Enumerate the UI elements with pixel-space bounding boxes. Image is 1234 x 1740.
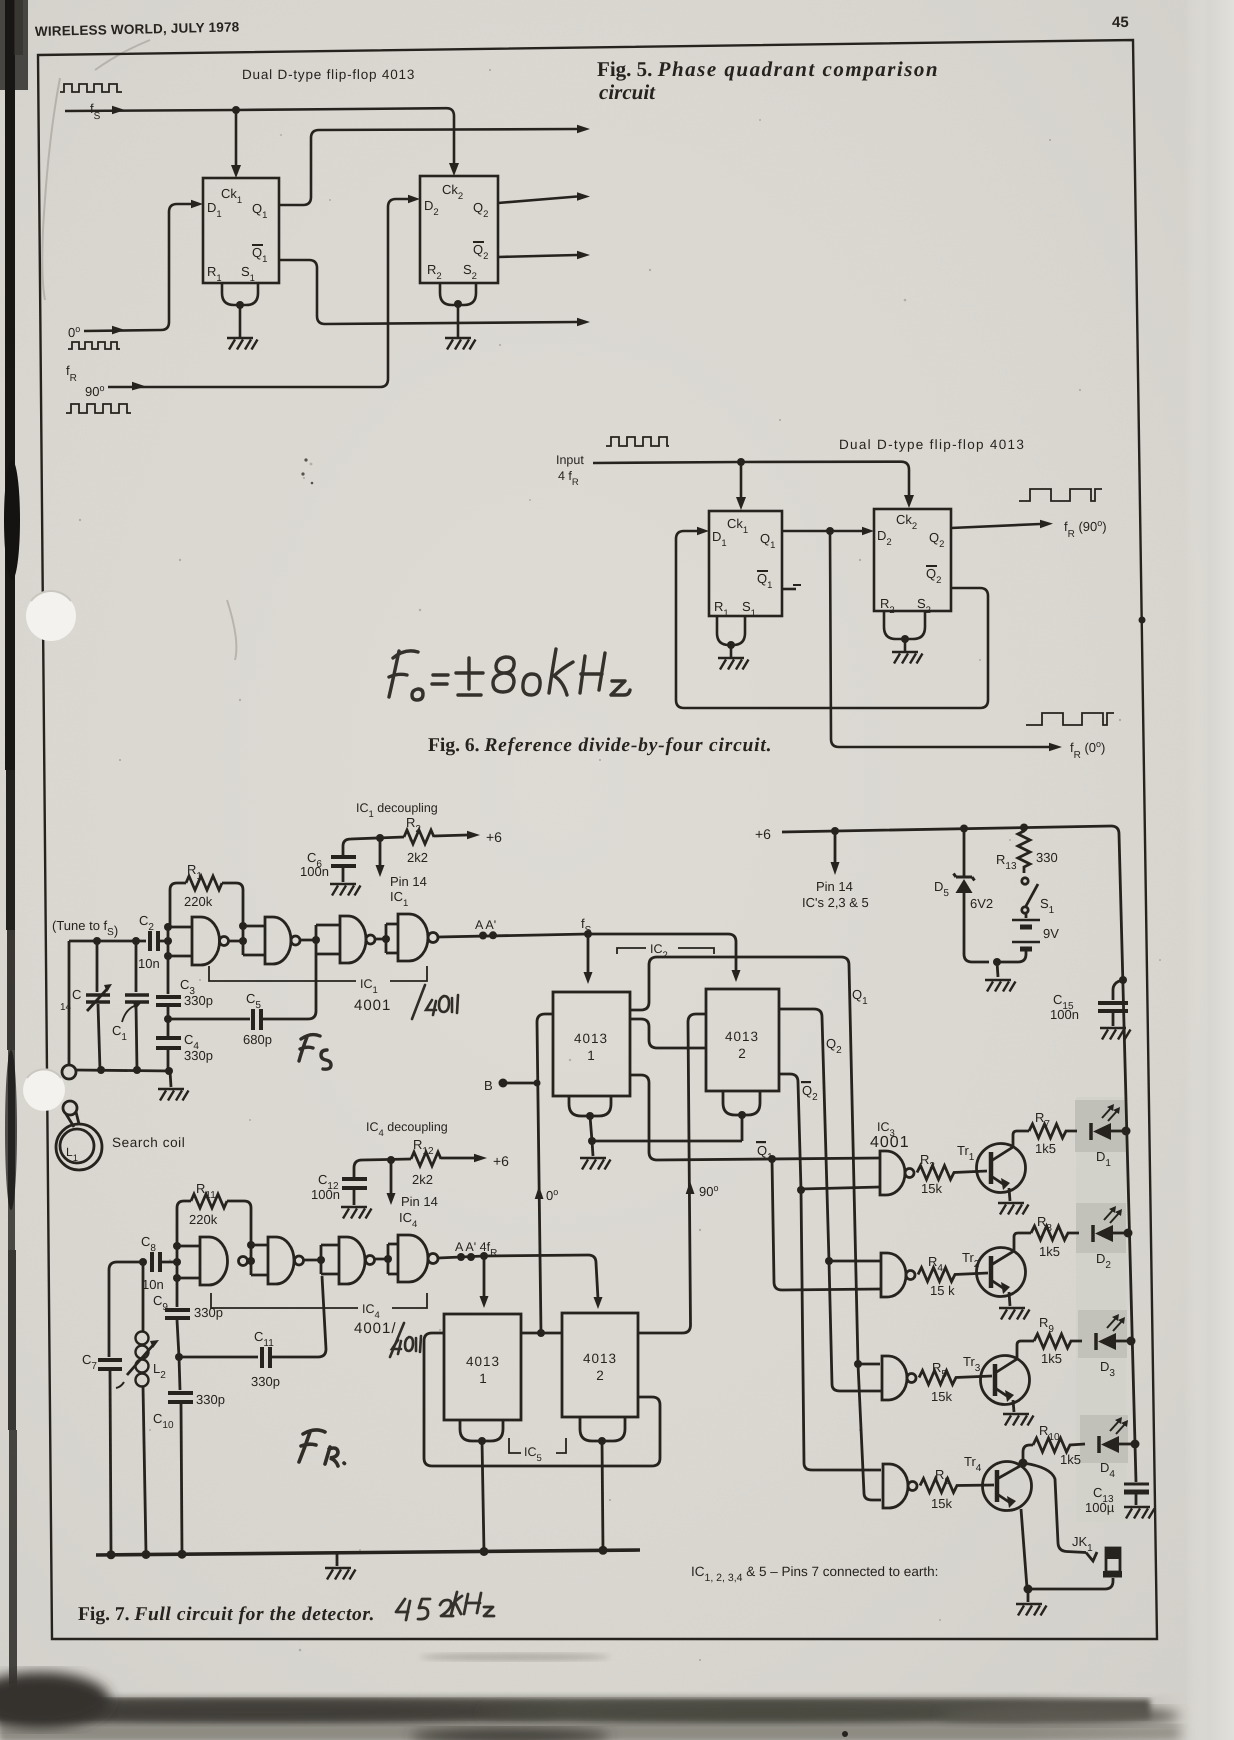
LED shading band [1076, 1097, 1126, 1522]
switch S1 [1022, 878, 1055, 916]
capacitor C5 [170, 954, 316, 1047]
svg-text:+6: +6 [486, 829, 502, 845]
capacitor C11 [179, 1276, 326, 1389]
flip-flop FF2 (Fig6) [874, 509, 951, 611]
wire input 4fR line [593, 462, 909, 497]
handwritten Fs [299, 1035, 331, 1070]
svg-text:220k: 220k [184, 894, 213, 909]
ground FF2 (Fig5) [445, 338, 476, 350]
capacitor C6 100n [331, 855, 356, 859]
wire C12 to R12 [354, 1159, 411, 1177]
capacitor C13 100u [1085, 1444, 1155, 1519]
handwritten annotation Fo = +/- 80kHz [389, 649, 630, 700]
jack JK1 contact blade [1086, 1552, 1097, 1561]
IC4 bracket and label [211, 1293, 427, 1337]
wire Q2 output arrow [498, 197, 577, 204]
wire pin14 arrow [379, 838, 382, 866]
node fS junction [584, 930, 592, 938]
capacitor C3 [156, 956, 213, 1008]
node C9/C11 junction [175, 1353, 183, 1361]
wire fS input line [65, 108, 454, 171]
resistor R1 220k feedback [170, 862, 243, 927]
wire RS ground link to FF2 [592, 1140, 742, 1143]
NOR gate IC3a [880, 1151, 905, 1195]
wire gate out node IC4c-d [375, 1244, 399, 1274]
node FF1 RS junction fig6 [727, 641, 735, 649]
node battery/zener ground junction [993, 958, 1001, 966]
svg-text:Dual D-type flip-flop 4013: Dual D-type flip-flop 4013 [839, 437, 1025, 452]
wire R2 to +6 [434, 835, 467, 836]
wire Q1 to gate C top input [858, 1363, 880, 1366]
LED D2 [1093, 1206, 1128, 1271]
resistor R11 220k feedback [177, 1181, 251, 1246]
node R2/C6/pin14 junction [376, 834, 384, 842]
svg-text:+6: +6 [755, 826, 771, 842]
wire C6 to R2 [343, 837, 404, 855]
fS input square wave [60, 84, 122, 92]
wire Q2bar loop to D1 [676, 531, 988, 708]
handwritten FR. [299, 1430, 345, 1466]
flip-flop FF1 (Fig6) [709, 511, 782, 616]
wire Q1bar down to gate B bottom input [772, 1159, 881, 1290]
svg-text:1: 1 [479, 1371, 487, 1386]
resistor R3 15k [917, 1166, 987, 1180]
svg-text:2: 2 [596, 1368, 604, 1383]
wire C8 to gate node [160, 1246, 200, 1278]
resistor R10 1k5 [1033, 1438, 1085, 1452]
wire fR 0deg output [830, 531, 1049, 747]
wire IC5 FF2 RS loop [580, 1417, 625, 1441]
wire 0-degree input to D1 [84, 204, 191, 331]
wire FF2 R2 S2 loop [440, 283, 476, 305]
svg-text:+6: +6 [493, 1153, 509, 1169]
ground Tr4 [1016, 1604, 1047, 1616]
node Input 4fR label [556, 453, 584, 488]
svg-text:4013: 4013 [466, 1354, 500, 1369]
wire 90-degree input to D2 [108, 199, 408, 387]
wire Q1bar line to gate A [630, 1075, 880, 1160]
wire +6 supply rail [782, 826, 1135, 1444]
wire bottom rail of oscillator [76, 1070, 172, 1071]
wire Q1bar stub [782, 588, 796, 591]
wire left drop to coil [68, 941, 71, 1064]
wire Q2bar output arrow [498, 255, 577, 257]
transistor Tr1 [957, 1131, 1029, 1201]
svg-text:Search coil: Search coil [112, 1135, 185, 1150]
wire Q2 riser [779, 1009, 829, 1261]
svg-text:Fig. 5. Phase quadrant compari: Fig. 5. Phase quadrant comparison [597, 57, 939, 81]
resistor R13 330 [996, 828, 1058, 873]
wire fS to Ck of 4013-2 [588, 934, 736, 972]
wire IC2 gnd stem [592, 1141, 593, 1156]
inductor L2 with trim arrow [116, 1262, 166, 1553]
wire Tr4 emitter down [1021, 1509, 1027, 1588]
NOR gate IC3d [883, 1464, 908, 1508]
resistor R5 15k [919, 1371, 992, 1385]
NAND gate IC4c [339, 1237, 365, 1284]
wire gate3 out to gate4 node [375, 924, 398, 953]
wire Q1 to D2 [782, 530, 862, 533]
wire Q2 down to gate C bottom input [829, 1261, 881, 1391]
svg-text:10n: 10n [138, 956, 160, 971]
capacitor C9 [153, 1278, 223, 1357]
NAND gate IC4b [268, 1237, 294, 1284]
svg-text:15k: 15k [921, 1181, 942, 1196]
svg-text:45: 45 [1112, 14, 1129, 31]
svg-text:100µ: 100µ [1085, 1500, 1115, 1515]
wire IC5 feedback loop [424, 1333, 660, 1466]
svg-text:Input: Input [556, 453, 584, 467]
wire main oscillator input line [69, 940, 146, 943]
IC5 bracket label [509, 1438, 566, 1464]
ground FF1 (Fig5) [227, 338, 258, 350]
svg-text:330p: 330p [184, 993, 213, 1008]
wire earth rail [96, 1550, 640, 1555]
wire IC4 out to 4fR node [438, 1256, 484, 1258]
capacitor C1 [112, 941, 149, 1070]
flip-flop FF2 (Fig5) [420, 176, 498, 283]
node junction input/Ck1 [737, 458, 745, 466]
wire FF1 RS to ground node [590, 1116, 592, 1141]
node main wire junctions [93, 937, 101, 945]
ground Tr2 [999, 1308, 1030, 1320]
90-degree square wave [66, 404, 131, 413]
wire Tr4 gnd stem [1027, 1589, 1030, 1602]
node FF2 RS junction fig6 [901, 635, 909, 643]
resistor R2 2k2 [404, 830, 434, 844]
variable capacitor C14 [60, 941, 112, 1070]
wire Ck1 drop fig6 [740, 462, 743, 499]
flip-flop 4013-1 of IC2 [553, 992, 630, 1096]
node B input [499, 1079, 508, 1088]
stray ink specks [301, 458, 313, 484]
capacitor C2 [138, 913, 160, 971]
search coil L1 [56, 1112, 102, 1170]
wire gate out node IC4a-b [251, 1245, 268, 1275]
ground C6 [330, 884, 361, 896]
svg-text:IC's 2,3 & 5: IC's 2,3 & 5 [802, 895, 869, 910]
handwritten /4011 (IC4) [390, 1323, 421, 1357]
0-degree square wave [68, 342, 120, 349]
wire R12 to +6 [441, 1157, 474, 1160]
wire IC5 D2 link [521, 1332, 562, 1335]
wire rail ground stem [336, 1553, 339, 1566]
wire FF2 RS loop fig6 [884, 611, 925, 639]
transistor Tr4 [964, 1454, 1032, 1511]
wire Q2 to gate B top input [829, 1260, 881, 1263]
svg-text:100n: 100n [300, 864, 329, 879]
wire B to 0deg riser [503, 1082, 537, 1085]
wire jack to emitter return [1028, 1578, 1113, 1589]
NAND gate IC4a [200, 1237, 228, 1285]
wire Q1bar output to arrow [279, 260, 577, 324]
wire C12 gnd stem [353, 1190, 356, 1205]
svg-text:330: 330 [1036, 850, 1058, 865]
svg-text:2: 2 [738, 1046, 746, 1061]
NAND gate IC4d [398, 1235, 428, 1282]
coil terminal hook upper [62, 1065, 76, 1079]
resistor R12 2k2 [411, 1152, 441, 1166]
punch hole lower [23, 1069, 65, 1111]
svg-text:9V: 9V [1043, 926, 1059, 941]
wire IC2 FF2 RS loop [723, 1091, 760, 1115]
ground main rail [325, 1568, 356, 1580]
node Q1 to gateC junction [854, 1360, 862, 1368]
wire 4fR to IC5 clocks [484, 1255, 598, 1299]
ground C12 [341, 1207, 372, 1219]
capacitor C4 [156, 1032, 213, 1063]
resistor R9 1k5 [1034, 1334, 1082, 1348]
svg-text:15 k: 15 k [930, 1283, 955, 1298]
wire fS arrow into 4013-1 [587, 934, 590, 974]
left binding dark strip [0, 0, 28, 1700]
resistor R7 1k5 [1029, 1124, 1077, 1138]
wire FF1 RS loop fig6 [717, 616, 745, 645]
svg-text:330p: 330p [196, 1392, 225, 1407]
wire FF2 gnd stem fig6 [904, 639, 907, 651]
ground oscillator1 [158, 1089, 189, 1101]
Fig 5 caption [597, 57, 939, 104]
wire Q1' of FF1 jog to FF2 D [630, 1019, 706, 1048]
resistor R6 15k [920, 1479, 994, 1493]
svg-text:Pin 14: Pin 14 [401, 1194, 438, 1209]
svg-text:circuit: circuit [599, 80, 656, 104]
svg-text:A A': A A' [475, 918, 496, 932]
node FF1 RS junction [236, 301, 244, 309]
svg-text:100n: 100n [311, 1187, 340, 1202]
svg-text:680p: 680p [243, 1032, 272, 1047]
svg-text:Pin 14: Pin 14 [390, 874, 427, 889]
capacitor C12 100n [342, 1177, 367, 1181]
node ink blob on border [1139, 617, 1146, 624]
zener diode D5 6V2 [934, 828, 993, 962]
NAND gate IC1b [265, 917, 291, 964]
svg-text:4001/: 4001/ [354, 1320, 397, 1337]
LED D4 [1099, 1417, 1135, 1480]
wire FF1 gnd stem fig6 [730, 645, 733, 657]
handwritten /4011 (IC1) [412, 985, 458, 1019]
svg-text:15k: 15k [931, 1389, 952, 1404]
svg-text:4013: 4013 [725, 1029, 759, 1044]
node FF2 RS junction [454, 300, 462, 308]
resistor R8 1k5 [1031, 1226, 1079, 1240]
NOR gate IC3c [882, 1356, 907, 1400]
wire gate out node IC4b-c [304, 1245, 340, 1274]
IC1 decoupling subcircuit [300, 801, 502, 909]
resistor R4 15k [918, 1268, 988, 1282]
Fig 6 caption [428, 735, 772, 756]
fR 90deg square wave [1019, 489, 1102, 501]
svg-text:330p: 330p [184, 1048, 213, 1063]
wire FF1 ground stem [239, 305, 242, 337]
wire 0deg riser D1 to IC5 [537, 1014, 553, 1333]
wire C2 to gate input node [158, 927, 192, 956]
wire Q1 down to gate D bottom input [858, 1364, 881, 1500]
wire C3-C4 node [167, 1007, 170, 1071]
svg-text:1k5: 1k5 [1039, 1244, 1060, 1259]
svg-text:Dual D-type flip-flop 4013: Dual D-type flip-flop 4013 [242, 67, 415, 82]
pencil smudge curves top-left [42, 40, 236, 660]
wire gate1 out to gate2 node [229, 926, 266, 955]
punch hole upper [26, 591, 76, 641]
wire IC5 FF2 RS to rail [602, 1441, 603, 1550]
svg-text:4001: 4001 [354, 997, 391, 1014]
wire main FR oscillator line [109, 1262, 146, 1357]
svg-text:1k5: 1k5 [1035, 1141, 1056, 1156]
node Q1/fR0 junction [826, 527, 834, 535]
ground IC2 [580, 1158, 611, 1170]
flip-flop 4013-2 of IC2 [706, 989, 779, 1091]
svg-text:330p: 330p [251, 1374, 280, 1389]
svg-text:Fig. 6. Reference divide-by-fo: Fig. 6. Reference divide-by-four circuit… [428, 735, 772, 756]
wire A A' fS line (IC1 output) [438, 934, 588, 937]
wire Tr4 to jack JK1 [1023, 1463, 1086, 1553]
wire Ck2 drop arrowhead [449, 163, 459, 176]
node Q1bar junction [768, 1155, 776, 1163]
node L2 top junction [139, 1258, 147, 1266]
capacitor C10 [153, 1357, 225, 1553]
NAND gate IC1a [192, 917, 220, 965]
flip-flop 4013-1 of IC5 [444, 1314, 521, 1420]
wire Tr4 collector to R10 [1020, 1445, 1033, 1466]
NAND gate IC1c [340, 916, 366, 963]
NAND gate IC1d [398, 914, 428, 961]
svg-text:6V2: 6V2 [970, 896, 993, 911]
svg-text:10n: 10n [142, 1277, 164, 1292]
wire IC2 FF1 RS loop [569, 1096, 611, 1116]
ground Tr3 [1003, 1414, 1034, 1426]
svg-text:1: 1 [587, 1048, 595, 1063]
jack JK1 body [1103, 1548, 1122, 1578]
node junction fS/Ck1 [232, 106, 240, 114]
wire IC5 FF1 RS loop [460, 1420, 503, 1441]
svg-text:C: C [72, 987, 81, 1002]
transistor Tr2 [962, 1233, 1031, 1306]
IC2 bracket [617, 942, 714, 961]
IC4 decoupling subcircuit [311, 1120, 509, 1230]
wire Q2bar to gate A bottom input [801, 1187, 880, 1189]
NOR gate IC3b [881, 1253, 906, 1297]
wire Q1 output to arrow [279, 129, 577, 205]
svg-text:2k2: 2k2 [412, 1172, 433, 1187]
svg-text:Fig. 7. Full circuit for the: Fig. 7. Full circuit for the detector. [78, 1604, 375, 1625]
wire Q1 output up-over-down [630, 957, 858, 1364]
flip-flop FF1 (Fig5) [203, 178, 279, 283]
svg-text:4013: 4013 [583, 1351, 617, 1366]
coil terminal hook lower [63, 1101, 77, 1115]
wire pin14 ICs arrow [834, 831, 837, 864]
wire 90deg riser D2 to IC5 [638, 1014, 706, 1333]
node gate1 input junctions [164, 923, 172, 931]
bottom scan shadow band [0, 1653, 1185, 1740]
fR 0deg square wave [1026, 713, 1114, 725]
capacitor C8 [141, 1234, 164, 1292]
ground FF2 (Fig6) [892, 652, 923, 664]
node AA' 4fR junction dots [457, 1253, 465, 1261]
svg-text:2k2: 2k2 [407, 850, 428, 865]
ground FF1 (Fig6) [718, 658, 749, 670]
wire FF2 ground stem [457, 304, 460, 337]
wire Q2bar riser [779, 1074, 801, 1190]
battery 9V [997, 913, 1059, 962]
svg-text:4001: 4001 [870, 1134, 910, 1151]
svg-text:B: B [484, 1078, 493, 1093]
IC1 bracket and label [209, 966, 427, 1014]
wire Q2bar down to gate D top input [801, 1190, 881, 1470]
svg-text:100n: 100n [1050, 1007, 1079, 1022]
ground battery [985, 980, 1016, 992]
wire battery gnd stem [997, 962, 998, 977]
wire C6 gnd stem [342, 868, 345, 882]
wire FF1 R1 S1 loop [222, 283, 258, 305]
transistor Tr3 [963, 1341, 1034, 1412]
input 4fR square wave [606, 437, 669, 446]
wire gate2 out to gate3 node [300, 925, 340, 954]
svg-text:15k: 15k [931, 1496, 952, 1511]
capacitor C15 100n [1050, 976, 1131, 1040]
ground Tr1 [998, 1203, 1029, 1215]
svg-text:4013: 4013 [574, 1031, 608, 1046]
svg-text:Pin 14: Pin 14 [816, 879, 853, 894]
capacitor C7 [82, 1352, 122, 1553]
handwritten 452 kHz [396, 1592, 494, 1620]
wire pin14 IC4 arrow [390, 1160, 393, 1194]
svg-text:1k5: 1k5 [1041, 1351, 1062, 1366]
LED D1 [1091, 1104, 1126, 1169]
wire Ck1 drop [235, 110, 238, 166]
svg-text:1k5: 1k5 [1060, 1452, 1081, 1467]
LED D3 [1096, 1314, 1131, 1379]
wire IC5 FF1 RS to rail [482, 1441, 484, 1552]
wire osc ground stem [170, 1071, 171, 1087]
svg-text:220k: 220k [189, 1212, 218, 1227]
node Tr4 collector junction [1019, 1459, 1028, 1468]
flip-flop 4013-2 of IC5 [562, 1313, 638, 1417]
wire Q2 fR 90deg output [951, 524, 1040, 528]
